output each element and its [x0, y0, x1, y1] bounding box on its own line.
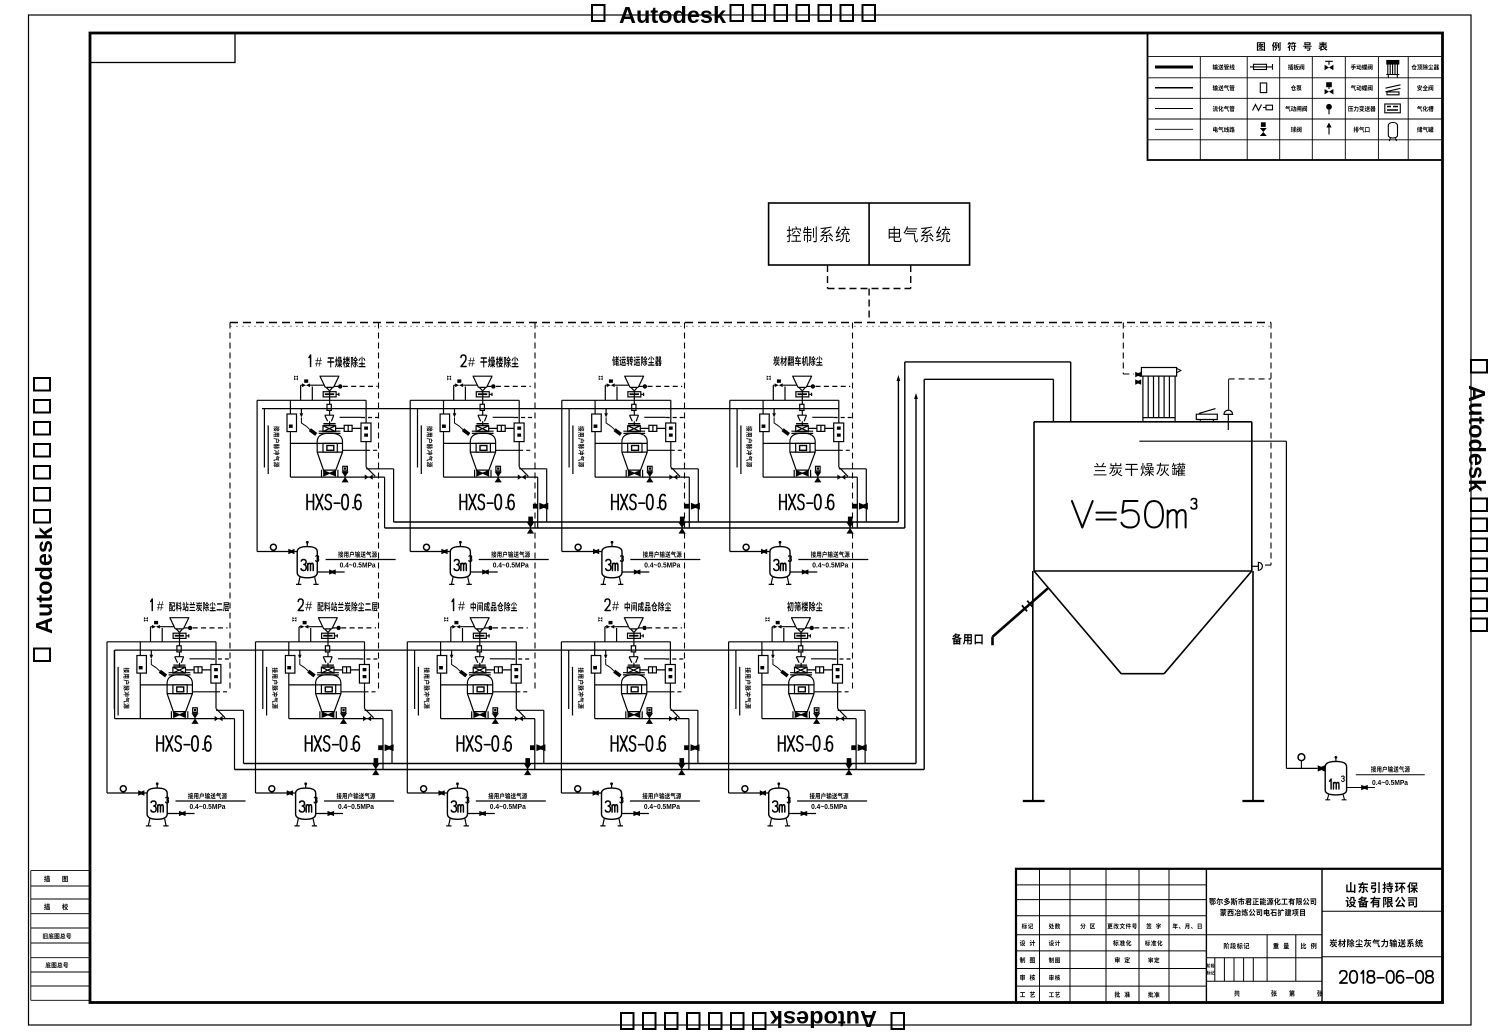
corner reference box	[90, 33, 235, 63]
titleblock 设 计	[1020, 940, 1035, 946]
note user air supply U3	[643, 551, 682, 557]
svg-text:Autodesk: Autodesk	[1464, 385, 1490, 493]
revtable 描校	[44, 903, 68, 910]
top row conveying trunk lines	[385, 522, 905, 528]
legend label 仓顶除尘器	[1411, 64, 1439, 70]
air service line across tank top	[1139, 440, 1286, 442]
titleblock 批准	[1148, 992, 1159, 998]
trunk isolating valves at unit U2	[527, 503, 548, 534]
label HXS-0.6 U3	[612, 495, 666, 510]
note pulse air B3	[424, 668, 430, 709]
trunk isolating valves at unit U3	[679, 503, 700, 534]
riser with vent arrow (top row)	[897, 380, 899, 523]
legend label 安全阀	[1417, 85, 1433, 91]
legend table	[1148, 33, 1443, 160]
dust collector unit U3 (HXS-0.6 bin pump assembly)	[562, 376, 701, 585]
legend label 手动蝶阀	[1351, 64, 1373, 70]
svg-text:Autodesk: Autodesk	[31, 526, 57, 634]
label tank volume V=50m3	[1072, 501, 1186, 528]
svg-text:#: #	[305, 600, 312, 614]
title unit U4	[773, 356, 822, 366]
receiver outlet	[1347, 787, 1375, 789]
label HXS-0.6 B3	[457, 736, 511, 751]
legend line samples	[1155, 67, 1193, 129]
label HXS-0.6 B4	[611, 736, 665, 751]
svg-text:#: #	[612, 600, 619, 614]
titleblock 年、月、日	[1173, 923, 1202, 929]
titleblock 第	[1289, 990, 1295, 996]
legend label 储气罐	[1417, 127, 1433, 133]
svg-text:0.4~0.5MPa: 0.4~0.5MPa	[338, 804, 374, 811]
svg-text:0.4~0.5MPa: 0.4~0.5MPa	[644, 563, 680, 570]
label 3m U3	[606, 560, 618, 571]
dust collector unit B2 (HXS-0.6 bin pump assembly)	[256, 617, 395, 826]
titleblock 审 定	[1115, 957, 1130, 963]
titleblock 工 艺	[1020, 991, 1035, 997]
dashed drop to tank nozzle	[1263, 323, 1271, 566]
titleblock 张	[1271, 990, 1277, 996]
title unit U2	[461, 355, 466, 367]
titleblock 工艺	[1049, 992, 1060, 998]
riser to tank inlet (top row)	[905, 362, 1071, 528]
label spare port	[952, 633, 983, 644]
signal bus (dashed)	[230, 322, 1271, 324]
svg-text:#: #	[315, 356, 322, 370]
titleblock 阶段标记	[1224, 943, 1250, 950]
svg-text:#: #	[157, 600, 164, 614]
revision table bottom-left	[31, 871, 90, 1001]
date 2018-06-08	[1340, 971, 1433, 983]
watermark left (rotated -90)	[31, 378, 57, 661]
note pulse air U2	[427, 426, 433, 467]
label 3m B4	[605, 801, 617, 812]
label 3m B3	[451, 801, 463, 812]
label 3m B2	[299, 801, 311, 812]
legend label 气动闸阀	[1285, 106, 1307, 112]
titleblock 更改文件号	[1107, 923, 1137, 929]
tank relief valve	[1196, 409, 1217, 422]
titleblock 审 核	[1020, 974, 1035, 980]
titleblock 标准化	[1145, 940, 1163, 946]
1m3 air receiver tank	[1325, 761, 1346, 795]
filter hat spout	[1177, 368, 1181, 372]
bottom row purge header pipe	[115, 650, 838, 719]
titleblock 重 量	[1273, 943, 1289, 949]
svg-text:0.4~0.5MPa: 0.4~0.5MPa	[811, 804, 847, 811]
title unit U3	[612, 356, 662, 366]
legend symbol: slide gate valve	[1250, 64, 1273, 111]
top row purge header pipe	[262, 408, 839, 410]
titleblock 比 例	[1301, 943, 1317, 949]
label HXS-0.6 B5	[779, 736, 833, 751]
titleblock 签 字	[1146, 923, 1161, 929]
note pulse air B5	[745, 668, 751, 709]
svg-text:0.4~0.5MPa: 0.4~0.5MPa	[644, 804, 680, 811]
legend symbol: vent arrow	[1328, 125, 1330, 135]
dust collector unit U1 (HXS-0.6 bin pump assembly)	[257, 376, 396, 585]
note user air supply U4	[811, 551, 850, 557]
label HXS-0.6 U4	[780, 495, 834, 510]
titleblock 制 图	[1020, 957, 1035, 963]
note pulse air U4	[746, 426, 752, 467]
label control system	[787, 226, 850, 242]
tank vent mushroom	[1228, 379, 1230, 409]
dust collector unit B1 (HXS-0.6 bin pump assembly)	[107, 617, 246, 826]
riser with vent arrow (bottom row)	[915, 398, 917, 764]
dust collector unit B4 (HXS-0.6 bin pump assembly)	[561, 617, 700, 826]
titleblock 标记	[1022, 923, 1033, 929]
legend symbol: pneumatic valve	[1326, 82, 1332, 87]
label electrical system	[889, 226, 951, 242]
trunk isolating valves at unit B4	[678, 744, 699, 775]
label 3m U2	[454, 560, 466, 571]
trunk isolating valves at unit U4	[847, 503, 868, 534]
valve	[1318, 765, 1325, 771]
titleblock 处数	[1049, 923, 1060, 929]
note user air supply B3	[488, 793, 527, 799]
project owner line2	[1220, 909, 1305, 916]
legend label 流化气管	[1213, 106, 1235, 112]
wire: control box to signal bus (dashed)	[828, 265, 911, 323]
legend label 球阀	[1291, 127, 1302, 133]
note user air supply U1	[338, 551, 377, 557]
trunk isolating valves at unit B2	[372, 744, 393, 775]
watermark top: Autodesk educational product	[592, 2, 875, 28]
label ash tank	[1094, 463, 1186, 476]
label 3m U1	[301, 560, 313, 571]
legend label 输送气管	[1213, 85, 1235, 91]
titleblock 标准化	[1113, 940, 1131, 946]
bottom row conveying trunk lines	[235, 764, 925, 770]
revtable 旧底图总号	[43, 933, 71, 939]
legend title	[1257, 42, 1328, 51]
legend symbol: air receiver tank	[1388, 123, 1397, 142]
svg-text:0.4~0.5MPa: 0.4~0.5MPa	[490, 804, 526, 811]
note user air supply B1	[188, 793, 227, 799]
titleblock 共	[1234, 990, 1240, 996]
tank support legs	[1033, 571, 1253, 801]
label 3m U4	[774, 560, 786, 571]
label 3m B1	[151, 801, 163, 812]
note user air supply B2	[337, 793, 376, 799]
titleblock 批 准	[1115, 991, 1130, 997]
watermark right (rotated 90)	[1464, 360, 1490, 631]
company line2	[1346, 896, 1417, 907]
unit boundary dashed verticals	[229, 323, 231, 692]
svg-text:Autodesk: Autodesk	[769, 1006, 877, 1032]
legend label 输送管线	[1213, 64, 1235, 70]
note pulse air U1	[273, 426, 279, 467]
watermark bottom (rotated 180)	[621, 1006, 904, 1032]
note user air supply B5	[810, 793, 849, 799]
svg-text:Autodesk: Autodesk	[619, 2, 727, 28]
project owner line1	[1209, 898, 1316, 906]
title unit B2	[298, 599, 303, 611]
legend symbol: fluidizer	[1385, 104, 1401, 113]
note user air supply U2	[491, 551, 530, 557]
dust collector unit U2 (HXS-0.6 bin pump assembly)	[410, 376, 549, 585]
compressed air drop line to receiver	[1286, 441, 1317, 768]
filter control valves (dashed feed)	[1123, 323, 1134, 375]
label HXS-0.6 U1	[307, 495, 361, 510]
legend symbol: safety relief	[1386, 85, 1401, 95]
legend label 压力变送器	[1348, 106, 1376, 112]
ash storage tank V=50m3	[1023, 422, 1264, 801]
label 3m B5	[773, 801, 785, 812]
company line1	[1346, 882, 1418, 893]
legend label 排气口	[1354, 127, 1370, 133]
svg-text:#: #	[458, 600, 465, 614]
title unit B3	[452, 599, 454, 611]
titleblock 分 区	[1080, 923, 1095, 929]
title unit U1	[309, 355, 311, 367]
title unit B4	[605, 599, 610, 611]
svg-text:0.4~0.5MPa: 0.4~0.5MPa	[1372, 780, 1408, 787]
legend symbol: pressure gauge	[1326, 104, 1332, 110]
legend label 气动蝶阀	[1351, 85, 1373, 91]
legend label 插板阀	[1288, 64, 1304, 70]
title block	[1016, 869, 1443, 1003]
control system / electrical system box	[769, 203, 970, 265]
label 1m3	[1330, 779, 1339, 789]
dust collector unit B5 (HXS-0.6 bin pump assembly)	[729, 617, 868, 826]
label HXS-0.6 B1	[157, 736, 211, 751]
spare port (beiyongkou)	[993, 588, 1049, 645]
title unit B5	[787, 601, 822, 611]
titleblock 设计	[1049, 940, 1060, 946]
titleblock 张2	[1317, 990, 1323, 996]
svg-text:0.4~0.5MPa: 0.4~0.5MPa	[190, 804, 226, 811]
trunk isolating valves at unit B5	[845, 744, 866, 775]
riser to tank inlet (bottom row)	[924, 379, 1053, 769]
tank side nozzle	[1252, 565, 1259, 567]
dust collector unit U4 (HXS-0.6 bin pump assembly)	[730, 376, 869, 585]
trunk isolating valves at unit B3	[524, 744, 545, 775]
title unit B1	[151, 599, 153, 611]
titleblock 审定	[1148, 957, 1159, 963]
label HXS-0.6 U2	[460, 495, 514, 510]
note pulse air B4	[578, 668, 584, 709]
pressure gauge	[1298, 754, 1305, 761]
legend label 仓泵	[1291, 85, 1302, 91]
tank top bag filter	[1141, 368, 1176, 422]
dust collector unit B3 (HXS-0.6 bin pump assembly)	[407, 617, 546, 826]
note pulse air B1	[123, 668, 129, 709]
legend label 气化槽	[1417, 106, 1434, 112]
legend label 电气线路	[1213, 127, 1235, 133]
svg-text:#: #	[468, 356, 475, 370]
label HXS-0.6 B2	[306, 736, 360, 751]
legend symbol: silo-top dust filter	[1385, 61, 1401, 142]
titleblock 审核	[1049, 975, 1060, 981]
titleblock 标记	[1207, 971, 1215, 975]
note user air supply B4	[642, 793, 681, 799]
note pulse air B2	[272, 668, 278, 709]
svg-text:0.4~0.5MPa: 0.4~0.5MPa	[493, 563, 529, 570]
svg-text:0.4~0.5MPa: 0.4~0.5MPa	[340, 563, 376, 570]
revtable 底图总号	[45, 962, 68, 968]
svg-text:0.4~0.5MPa: 0.4~0.5MPa	[812, 563, 848, 570]
note pulse air U3	[578, 426, 584, 467]
note user air supply right	[1371, 766, 1410, 772]
revtable 描图	[44, 876, 68, 883]
legend symbol: manual butterfly valve	[1325, 61, 1333, 65]
titleblock 制图	[1049, 957, 1060, 963]
drawing title	[1330, 939, 1423, 947]
titleblock 阶段	[1207, 964, 1214, 968]
